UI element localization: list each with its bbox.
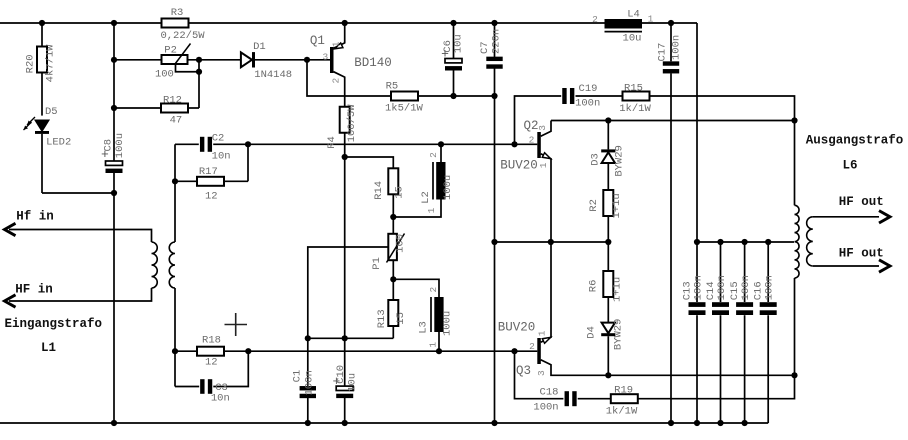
svg-text:1: 1 (648, 13, 654, 24)
svg-text:Eingangstrafo: Eingangstrafo (5, 317, 103, 331)
svg-text:R19: R19 (614, 384, 633, 396)
svg-text:10u: 10u (623, 32, 642, 44)
svg-text:C8: C8 (103, 139, 115, 152)
svg-text:100n: 100n (533, 401, 558, 413)
svg-text:R20: R20 (25, 54, 37, 73)
svg-text:C10: C10 (335, 365, 347, 384)
svg-text:LED2: LED2 (46, 136, 71, 148)
svg-text:100u: 100u (114, 133, 126, 158)
svg-text:R12: R12 (163, 95, 182, 107)
svg-text:2: 2 (331, 77, 342, 83)
svg-text:12: 12 (205, 356, 218, 368)
svg-text:Ausgangstrafo: Ausgangstrafo (806, 134, 904, 148)
svg-text:R3: R3 (171, 7, 184, 19)
svg-text:2: 2 (529, 341, 535, 352)
svg-text:47: 47 (170, 114, 183, 126)
svg-text:HF out: HF out (839, 247, 884, 261)
svg-text:220n: 220n (491, 29, 503, 54)
svg-text:100n: 100n (716, 275, 728, 300)
svg-text:1+1u: 1+1u (612, 277, 624, 302)
svg-text:C7: C7 (479, 41, 491, 54)
svg-text:100n: 100n (764, 275, 776, 300)
svg-text:12: 12 (205, 190, 218, 202)
svg-text:1k5/1W: 1k5/1W (385, 102, 424, 114)
svg-text:D4: D4 (586, 326, 598, 339)
svg-text:C2: C2 (212, 133, 225, 145)
svg-text:1: 1 (331, 41, 342, 47)
svg-text:Q3: Q3 (516, 364, 531, 378)
svg-text:R4: R4 (326, 136, 338, 149)
svg-text:15: 15 (395, 312, 407, 325)
svg-text:D3: D3 (589, 153, 601, 166)
svg-text:BUV20: BUV20 (498, 321, 536, 335)
svg-text:100n: 100n (670, 35, 682, 60)
svg-text:L4: L4 (627, 9, 640, 21)
svg-text:HF out: HF out (839, 195, 884, 209)
svg-text:1N4148: 1N4148 (254, 69, 292, 81)
svg-text:D1: D1 (253, 41, 266, 53)
svg-text:10n: 10n (211, 393, 230, 405)
svg-text:10u: 10u (347, 373, 359, 392)
svg-text:R13: R13 (376, 309, 388, 328)
svg-text:4k7/1W: 4k7/1W (45, 44, 57, 83)
svg-text:100n: 100n (304, 370, 316, 395)
svg-text:L3: L3 (417, 321, 429, 334)
svg-text:1k/1W: 1k/1W (619, 103, 651, 115)
svg-text:2: 2 (428, 287, 439, 293)
svg-text:Hf in: Hf in (16, 210, 54, 224)
svg-text:100n: 100n (692, 275, 704, 300)
svg-text:0,22/5W: 0,22/5W (160, 30, 205, 42)
svg-text:C1: C1 (291, 370, 303, 383)
svg-text:1: 1 (536, 330, 547, 336)
svg-text:100n: 100n (740, 275, 752, 300)
svg-text:10n: 10n (212, 150, 231, 162)
svg-text:D5: D5 (45, 106, 58, 118)
svg-text:HF in: HF in (15, 283, 53, 297)
svg-text:100: 100 (155, 68, 174, 80)
svg-text:BYW29: BYW29 (612, 319, 624, 351)
svg-text:BUV20: BUV20 (500, 158, 538, 172)
svg-text:1: 1 (538, 162, 549, 168)
svg-text:P1: P1 (371, 257, 383, 270)
svg-text:1: 1 (426, 207, 437, 213)
svg-text:1+1u: 1+1u (611, 193, 623, 218)
svg-text:R14: R14 (373, 181, 385, 200)
svg-text:C17: C17 (657, 43, 669, 62)
svg-text:3: 3 (323, 51, 329, 62)
svg-text:Q1: Q1 (310, 34, 325, 48)
svg-text:1: 1 (428, 342, 439, 348)
svg-text:100u: 100u (442, 175, 454, 200)
svg-text:R5: R5 (386, 81, 399, 93)
svg-text:2: 2 (592, 14, 598, 25)
svg-text:R17: R17 (199, 166, 218, 178)
svg-text:15: 15 (393, 186, 405, 199)
svg-text:R6: R6 (587, 280, 599, 293)
svg-text:BD140: BD140 (354, 56, 392, 70)
svg-text:1k/1W: 1k/1W (606, 405, 638, 417)
svg-text:L2: L2 (420, 191, 432, 204)
svg-text:2: 2 (428, 152, 439, 158)
svg-text:C19: C19 (579, 83, 598, 95)
svg-text:R15: R15 (624, 82, 643, 94)
svg-text:BYW29: BYW29 (614, 145, 626, 177)
svg-text:100u: 100u (442, 311, 454, 336)
svg-text:100/5W: 100/5W (346, 104, 358, 143)
svg-text:100: 100 (395, 234, 407, 253)
svg-text:100n: 100n (575, 97, 600, 109)
svg-text:L1: L1 (41, 341, 56, 355)
svg-text:C18: C18 (540, 386, 559, 398)
svg-text:10u: 10u (453, 34, 465, 53)
svg-text:3: 3 (537, 125, 548, 131)
svg-text:R2: R2 (588, 199, 600, 212)
svg-text:P2: P2 (164, 45, 177, 57)
svg-text:2: 2 (529, 134, 535, 145)
svg-text:3: 3 (536, 370, 547, 376)
svg-text:R18: R18 (202, 334, 221, 346)
svg-text:L6: L6 (842, 159, 857, 173)
